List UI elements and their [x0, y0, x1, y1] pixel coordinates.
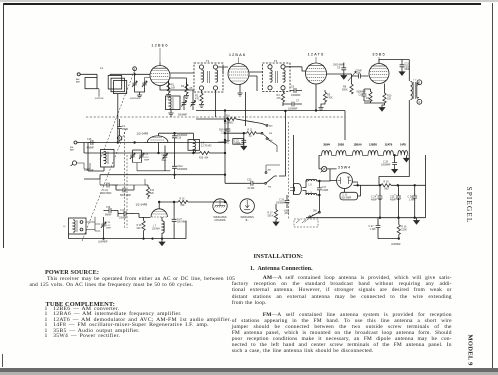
svg-text:82K: 82K: [150, 193, 155, 195]
IF transformer T2: [263, 63, 291, 92]
label JUMPER (avc): [218, 142, 228, 144]
svg-text:L 8: L 8: [309, 185, 313, 187]
svg-text:R10: R10: [199, 158, 204, 160]
label 500MMF: [178, 115, 188, 117]
terminal E: [417, 80, 422, 86]
ground C9: [341, 72, 347, 79]
svg-text:C19: C19: [144, 154, 149, 156]
trimmer C19B: [139, 153, 150, 163]
volume control R8: [342, 72, 356, 95]
svg-text:C16: C16: [177, 138, 182, 140]
svg-text:ANT: ANT: [285, 212, 290, 215]
svg-text:AM: AM: [268, 169, 271, 172]
pilot lamp: [321, 166, 327, 172]
vertical 12BA6 branch: [245, 92, 247, 126]
svg-text:C14: C14: [359, 93, 364, 96]
svg-text:500 MMF: 500 MMF: [342, 198, 352, 200]
wire FM mid rows: [84, 143, 225, 180]
capacitor C16: [352, 70, 369, 83]
svg-text:2000MMF: 2000MMF: [276, 202, 287, 204]
svg-text:470K: 470K: [327, 96, 333, 99]
svg-text:AM: AM: [269, 139, 272, 142]
indicator circle chassis: [213, 199, 227, 213]
svg-text:5000 MMF: 5000 MMF: [120, 195, 132, 197]
bottom return wire: [69, 221, 187, 239]
resistor R13: [145, 185, 155, 199]
trimmer C5: [190, 98, 195, 110]
capacitor C23: [225, 179, 264, 191]
svg-text:+: +: [376, 193, 378, 196]
svg-text:C9: C9: [337, 67, 341, 70]
resistor R10: [199, 151, 226, 159]
ground B minus: [414, 218, 420, 224]
svg-text:C7: C7: [296, 100, 300, 103]
svg-text:5000 MMF: 5000 MMF: [101, 193, 113, 195]
svg-text:12.75 MG: 12.75 MG: [201, 145, 212, 148]
resistor R1: [167, 81, 176, 93]
svg-text:T1: T1: [206, 59, 210, 63]
wire trimmer feet: [133, 163, 171, 171]
svg-text:.05: .05: [189, 87, 193, 90]
svg-text:.02 MF: .02 MF: [247, 187, 255, 190]
resistor R17: [268, 204, 278, 220]
trimmer C18b: [162, 146, 168, 171]
band switch link (dashed): [288, 122, 290, 220]
resistor R3: [181, 82, 193, 94]
heater string labels: [323, 142, 406, 146]
wire fm det connections: [86, 211, 151, 232]
svg-text:500MMF: 500MMF: [178, 115, 188, 117]
ground heater right: [404, 155, 410, 162]
svg-text:R 15: R 15: [137, 225, 143, 227]
antenna coupling box: [85, 78, 99, 97]
wire heater left end: [318, 155, 320, 166]
svg-text:C16: C16: [356, 72, 361, 75]
svg-text:470: 470: [195, 97, 200, 100]
tube 35W4: [337, 173, 353, 189]
label 1/2-14F8 (regen): [136, 202, 148, 206]
svg-text:JUMPER: JUMPER: [95, 98, 104, 100]
capacitor C30: [381, 155, 397, 167]
svg-text:MMF: MMF: [405, 68, 411, 71]
capacitor C13: [400, 60, 411, 72]
tube 1/2 14F8 (osc): [145, 133, 171, 142]
svg-text:500 K: 500 K: [268, 215, 275, 218]
label 12BA6: [229, 52, 246, 64]
wire 12AT6 cathode down: [315, 84, 317, 111]
wire OT B+ down: [379, 100, 411, 186]
svg-text:C21A: C21A: [177, 165, 183, 168]
svg-text:C 27: C 27: [177, 219, 183, 221]
svg-text:604: 604: [205, 158, 210, 160]
switch SW: [304, 211, 320, 224]
svg-text:F: F: [419, 100, 421, 104]
resistor R10: [383, 84, 392, 104]
svg-text:C18: C18: [106, 207, 111, 209]
trimmer C19A: [130, 153, 135, 163]
variable capacitor C2A: [132, 74, 150, 87]
svg-text:R 14: R 14: [180, 199, 186, 201]
svg-text:12AT6: 12AT6: [385, 142, 393, 146]
wire T1 to 12BA6: [218, 67, 228, 74]
label 12BE6: [151, 43, 168, 66]
svg-text:12BE6: 12BE6: [151, 43, 168, 48]
svg-text:C17: C17: [322, 187, 327, 189]
svg-text:ANT: ANT: [70, 148, 75, 151]
svg-text:.1 MF: .1 MF: [370, 228, 377, 231]
label L1: [100, 66, 104, 70]
svg-text:MMF: MMF: [144, 160, 150, 162]
svg-text:220K: 220K: [401, 229, 407, 232]
capacitor C22: [100, 179, 118, 195]
line choke L8: [303, 179, 320, 187]
label JUMPER (B minus): [391, 244, 401, 246]
ground R3: [184, 94, 189, 99]
svg-text:T2: T2: [274, 59, 278, 63]
svg-text:MMF: MMF: [162, 160, 168, 162]
svg-text:B–: B–: [246, 219, 250, 222]
svg-text:12AT6: 12AT6: [308, 52, 325, 57]
capacitor C10: [219, 118, 230, 143]
svg-text:JUMPER: JUMPER: [130, 98, 139, 100]
resistor R4: [277, 90, 285, 102]
wire fm ant lower: [77, 163, 90, 169]
AC plug: [290, 184, 301, 195]
resistor R14: [178, 199, 226, 207]
svg-text:848: 848: [181, 205, 186, 207]
ground R17: [273, 220, 279, 226]
ground 12AT6: [318, 102, 325, 111]
wire 12AT6 to C16: [327, 63, 352, 75]
svg-text:25MF: 25MF: [122, 128, 129, 131]
svg-text:.1 MF: .1 MF: [409, 199, 416, 202]
svg-text:A: A: [134, 67, 136, 71]
wire audio feed vertical: [279, 110, 286, 176]
tube 12BA6: [228, 64, 249, 85]
tube 12BE6: [150, 62, 170, 86]
svg-text:FM: FM: [269, 133, 272, 135]
svg-text:860: 860: [385, 188, 390, 191]
wire osc section: [160, 81, 193, 98]
trimmer C4: [181, 98, 186, 110]
svg-text:C 31: C 31: [343, 195, 349, 197]
svg-text:1 K: 1 K: [249, 136, 253, 138]
wire 14F8 osc plate: [159, 132, 194, 134]
wire regen row: [118, 179, 145, 185]
svg-text:AM: AM: [269, 125, 272, 128]
svg-text:.01MF: .01MF: [322, 190, 329, 192]
svg-text:+: +: [394, 193, 396, 196]
label T2: [274, 59, 278, 63]
capacitor C12: [116, 185, 134, 197]
label 12AT6: [308, 52, 325, 64]
svg-text:3-12: 3-12: [106, 225, 111, 227]
wire 12BA6 plate to T2: [249, 72, 263, 91]
svg-text:R 11: R 11: [248, 130, 253, 132]
capacitor C9: [333, 63, 346, 73]
wire pilot row: [319, 166, 337, 169]
wire loop to tuning: [117, 94, 119, 143]
svg-text:R 19: R 19: [384, 181, 390, 184]
capacitor C31: [340, 185, 361, 200]
svg-text:JUMPER: JUMPER: [391, 244, 401, 246]
svg-text:620: 620: [137, 228, 142, 230]
wire B minus right vertical: [425, 155, 427, 218]
resistor R6: [196, 115, 267, 126]
node A: [133, 67, 137, 75]
capacitor C7: [283, 100, 302, 111]
wire 12BE6 plate to T1: [170, 73, 194, 82]
svg-text:100MMF: 100MMF: [291, 94, 301, 97]
resistor R15: [137, 217, 145, 239]
output transformer: [411, 82, 420, 100]
choke L6: [188, 133, 212, 153]
variable capacitor C2B: [142, 78, 150, 88]
svg-text:2000MMF: 2000MMF: [177, 135, 188, 137]
svg-text:12BE6: 12BE6: [369, 142, 377, 146]
B minus rail: [306, 216, 426, 219]
capacitor C15: [87, 138, 96, 150]
ground L2: [168, 110, 173, 117]
label JUMPER (fm ant): [84, 170, 94, 172]
ground R1: [166, 93, 171, 98]
line choke L9: [303, 191, 320, 196]
capacitor C17: [317, 181, 329, 195]
wire 35B5 plate top: [379, 60, 409, 82]
wire tuning to ground rail: [135, 87, 145, 98]
trimmer C19: [101, 217, 112, 239]
svg-text:L5: L5: [63, 226, 66, 228]
ground C13: [399, 69, 405, 75]
ground R2: [199, 103, 204, 108]
svg-text:5MMF: 5MMF: [105, 215, 112, 217]
svg-text:L 7: L 7: [153, 226, 157, 228]
label JUMPER (gang): [130, 98, 139, 100]
svg-text:L 4: L 4: [102, 155, 106, 157]
wire T1 sec down: [215, 90, 217, 117]
wire jumper bottom: [378, 238, 400, 240]
svg-text:CHASSIS: CHASSIS: [215, 219, 226, 222]
ground 35B5 cathode: [364, 103, 385, 111]
svg-text:35B5: 35B5: [372, 52, 386, 57]
svg-text:C19: C19: [106, 222, 111, 224]
terminal FM ANT lower: [71, 161, 77, 166]
svg-text:2000MMF: 2000MMF: [177, 169, 188, 171]
capacitor C6: [290, 86, 302, 97]
capacitor C1: [117, 119, 129, 136]
capacitor C20: [118, 210, 134, 220]
svg-text:JUMPER: JUMPER: [98, 242, 108, 244]
filter capacitor C24: [371, 185, 382, 219]
svg-text:120 MH: 120 MH: [152, 229, 160, 231]
switch AM-FM (if): [261, 125, 277, 153]
capacitor C23b to ground: [241, 132, 247, 150]
svg-text:47K: 47K: [277, 97, 282, 100]
svg-text:.02MF: .02MF: [234, 143, 241, 145]
svg-text:C1B: C1B: [162, 155, 167, 157]
tube 35B5: [369, 64, 389, 84]
indicator circle B minus: [240, 199, 254, 213]
filter capacitor C26: [408, 185, 418, 219]
svg-text:C23: C23: [247, 179, 252, 182]
IF transformer T1: [194, 63, 223, 92]
wire FM osc row: [84, 143, 200, 154]
svg-text:C 22: C 22: [103, 190, 109, 192]
terminal AM ANT: [76, 73, 81, 84]
capacitor C27 (regen): [172, 201, 188, 238]
bus B plus screen: [196, 110, 345, 140]
svg-text:14F8: 14F8: [400, 142, 406, 146]
svg-text:R13: R13: [150, 190, 155, 192]
wire FM det top: [69, 211, 307, 220]
tube 12AT6: [306, 63, 327, 84]
switch AM-FM (audio): [265, 165, 280, 188]
svg-text:500K: 500K: [342, 88, 348, 91]
capacitor C16b: [172, 133, 188, 164]
long vertical bus: [224, 111, 226, 183]
svg-text:C15: C15: [87, 138, 92, 141]
AVC bus (dashed): [86, 116, 345, 118]
loop antenna L1: [108, 74, 133, 93]
label T1: [206, 59, 210, 63]
oscillator coil L2 box: [166, 96, 181, 110]
resistor R2: [195, 90, 203, 103]
resistor R19: [381, 181, 391, 191]
svg-text:150: 150: [387, 97, 392, 100]
svg-text:C6: C6: [291, 86, 295, 89]
label JUMPER (loop): [95, 98, 104, 100]
wire line to switch: [319, 169, 330, 217]
svg-text:1/2-14F8: 1/2-14F8: [137, 131, 149, 135]
label TO SPKR: [413, 80, 417, 82]
resistor R11: [224, 130, 261, 138]
svg-text:40MF: 40MF: [390, 199, 397, 202]
capacitor C28: [276, 195, 289, 208]
capacitor C18: [104, 207, 119, 217]
label 1/2-14F8 (osc): [137, 131, 149, 135]
svg-text:7 V: 7 V: [413, 80, 417, 82]
label LINE ANT: [284, 210, 290, 215]
svg-text:MMF: MMF: [106, 228, 112, 230]
svg-text:ANT: ANT: [76, 80, 81, 83]
tuning gang dashed link: [82, 72, 134, 241]
svg-text:R3: R3: [181, 85, 185, 88]
ground C30: [392, 167, 398, 173]
svg-text:3-12: 3-12: [144, 157, 149, 159]
svg-text:B: B: [119, 136, 121, 140]
label JUMPER (det): [98, 242, 108, 244]
label 35W4: [338, 166, 351, 170]
tube 1/2 14F8 (regen): [151, 205, 167, 217]
svg-text:L1: L1: [100, 66, 104, 70]
svg-text:22MMF: 22MMF: [119, 218, 127, 220]
heater string coils: [319, 151, 408, 156]
wire line antenna vertical: [293, 135, 295, 195]
wire T2 to 12AT6: [286, 67, 306, 71]
svg-text:C 20: C 20: [120, 210, 126, 212]
ground det: [159, 238, 165, 246]
terminal FM ANT upper: [70, 141, 77, 151]
FM det coil L5 box: [63, 218, 86, 234]
node B: [117, 136, 121, 143]
capacitor C21: [172, 164, 188, 179]
svg-text:35W4: 35W4: [323, 142, 330, 146]
chassis bus: [77, 142, 226, 144]
label indicates chassis: [213, 216, 226, 222]
capacitor C14 / resistor R7: [357, 89, 373, 103]
wire AM ANT to coupling box: [80, 74, 97, 77]
svg-text:40MF: 40MF: [371, 199, 378, 202]
svg-text:FM: FM: [268, 186, 271, 188]
svg-text:12BA6: 12BA6: [229, 52, 246, 57]
svg-text:C 28: C 28: [279, 200, 285, 202]
FM osc coil L4 box: [101, 150, 115, 168]
filter capacitor C25: [390, 185, 401, 218]
svg-text:100MMF: 100MMF: [381, 164, 391, 167]
svg-text:100MMF: 100MMF: [288, 108, 298, 111]
label C23 box: [233, 139, 244, 145]
wire 35W4 plate left: [330, 180, 337, 182]
svg-text:35W4: 35W4: [338, 166, 351, 170]
svg-text:E: E: [418, 81, 420, 85]
capacitor C27: [369, 218, 381, 239]
svg-text:10K: 10K: [171, 86, 176, 89]
ground 12BA6 cathode: [237, 85, 242, 97]
resistor R16: [397, 218, 407, 239]
dipole dashed box: [294, 219, 318, 227]
svg-text:12BA6: 12BA6: [353, 142, 362, 146]
svg-text:35B5: 35B5: [338, 142, 345, 146]
resistor R5: [323, 90, 333, 102]
svg-text:R 6: R 6: [226, 115, 230, 118]
label 35B5: [372, 52, 386, 64]
wire regen plate: [158, 201, 178, 205]
terminal F: [417, 98, 422, 104]
svg-text:SW: SW: [313, 211, 318, 213]
wire 35W4 B rail: [352, 182, 425, 186]
svg-text:1/2-14F8: 1/2-14F8: [136, 202, 148, 206]
svg-text:LINE: LINE: [284, 210, 290, 212]
label indicates B minus: [241, 216, 254, 222]
coil L7: [152, 217, 165, 239]
